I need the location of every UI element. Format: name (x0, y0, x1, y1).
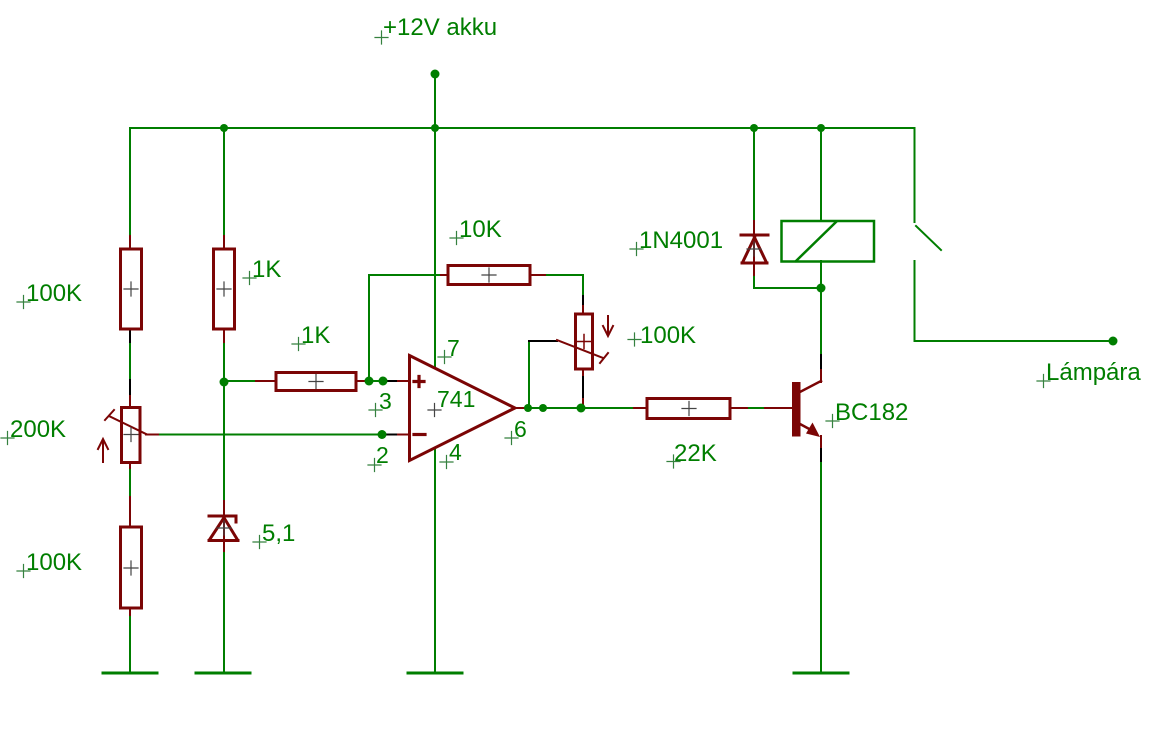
svg-text:Lámpára: Lámpára (1046, 359, 1141, 386)
pin stub op-amp pin 2 (398, 434, 409, 436)
origin cross R5 (309, 375, 323, 389)
svg-text:100K: 100K (640, 322, 696, 349)
wire relay bottom to collector (820, 261, 822, 370)
wire 22K to base (730, 407, 792, 409)
origin cross D1 (747, 242, 761, 256)
pin stub R3 wiper (146, 434, 158, 436)
pin stub D1 top (753, 221, 755, 235)
diode D1 1N4001 (741, 235, 768, 263)
text cross 1N4001 D1 (630, 243, 643, 256)
pin stub R8 right (730, 407, 747, 409)
pin stub R3 bottom (129, 462, 131, 468)
resistor R5 1K horizontal (276, 373, 356, 391)
resistor R4 100K bottom-left (121, 527, 142, 608)
text cross pin 2 (368, 459, 381, 472)
junction pin2 (378, 430, 387, 439)
text cross +12V akku (375, 31, 388, 44)
pin stub Z1 bottom (223, 543, 225, 551)
wire trimmer wiper down to output node (528, 341, 530, 408)
text cross 100K R1 (17, 296, 30, 309)
relay K1 coil (782, 221, 875, 262)
text cross 5,1 Z1 (253, 536, 266, 549)
text cross pin 6 (505, 432, 518, 445)
origin cross R4 (124, 561, 138, 575)
pin stub R8 left (634, 407, 647, 409)
text cross 1K R5 (292, 338, 305, 351)
svg-text:22K: 22K (674, 440, 717, 467)
text cross 1K R2 (243, 272, 256, 285)
wire relay coil top (820, 128, 822, 221)
junction node B (R2/R5/Z1) (220, 378, 229, 387)
ground (emitter) (794, 672, 848, 675)
wire black stub collector (820, 355, 822, 370)
ground (left divider) (103, 672, 157, 675)
svg-text:10K: 10K (459, 216, 502, 243)
node Lampara terminal (1109, 337, 1118, 346)
wire pot wiper to pin 2 (y=435) (146, 434, 398, 436)
wire black stub pin 2 (386, 434, 398, 436)
wire pin 4 to ground (434, 449, 436, 673)
pin stub op-amp pin 6 (515, 407, 526, 409)
origin cross R1 (124, 282, 138, 296)
resistor R1 100K top-left (121, 249, 142, 329)
junction D1/relay bottom (817, 284, 826, 293)
trimmer R7 100K (557, 314, 608, 369)
svg-text:1N4001: 1N4001 (639, 227, 723, 254)
pin stub R2 bottom (223, 329, 225, 342)
junction pin3/feedback (365, 377, 374, 386)
junction rail/+12V (431, 124, 439, 132)
wire +12V supply stub (434, 74, 436, 128)
text cross pin 7 (438, 351, 451, 364)
origin cross Z1 (217, 521, 231, 535)
junction rail/D1 (750, 124, 758, 132)
wire trimmer wiper horizontal (529, 340, 557, 342)
svg-text:1K: 1K (301, 322, 330, 349)
text cross pin 4 (440, 456, 453, 469)
svg-text:1K: 1K (252, 256, 281, 283)
junction output/trimmer bottom (577, 404, 586, 413)
origin cross R3 (124, 428, 138, 442)
text cross 100K R7 (628, 333, 641, 346)
wire black stub below R1 (129, 329, 131, 342)
svg-text:100K: 100K (26, 280, 82, 307)
ground (zener branch) (196, 672, 250, 675)
pin stub D1 bottom (753, 263, 755, 275)
wire rail to 1N4001 (753, 128, 755, 221)
pin stub trimmer top (582, 306, 584, 314)
resistor R2 1K vertical (214, 249, 235, 329)
pin stub Q1 collector (820, 370, 822, 382)
junction rail/relay (817, 124, 825, 132)
zener diode Z1 5,1 (209, 514, 238, 543)
wire 10K right to trimmer top (545, 275, 583, 306)
transistor Q1 BC182 (792, 381, 821, 437)
pin stub R1 top (129, 236, 131, 249)
wire emitter to ground (820, 437, 822, 673)
wire black stub above R3 (129, 380, 131, 396)
wire feedback horizontal to 10K (369, 274, 448, 276)
pin stub op-amp pin 3 (398, 380, 409, 382)
ground (op-amp pin 4) (408, 672, 462, 675)
pin stub R6 left (441, 274, 448, 276)
pin stub Z1 top (223, 501, 225, 514)
text cross 10K R6 (450, 232, 463, 245)
pin stub trimmer bottom upper (582, 369, 584, 375)
junction rail/R2 (220, 124, 228, 132)
text cross 200K R3 (1, 432, 14, 445)
op-amp U1 741 body (410, 356, 516, 461)
arrow up (200K adjust) (98, 439, 108, 462)
pin stub R3 top (129, 396, 131, 408)
wire output node to 22K (524, 407, 647, 409)
origin cross R6 (482, 268, 496, 282)
wire trimmer bottom to output node (582, 375, 584, 408)
wire 1N4001 anode to relay node (754, 275, 821, 288)
junction pin6/wiper (524, 404, 532, 412)
svg-text:BC182: BC182 (835, 399, 908, 426)
wire zener branch x=224 (223, 128, 225, 673)
junction pin6 (539, 404, 547, 412)
svg-text:100K: 100K (26, 549, 82, 576)
wire black stub below trimmer (582, 375, 584, 399)
svg-text:+12V akku: +12V akku (383, 14, 497, 41)
potentiometer R3 200K (105, 408, 146, 463)
svg-text:5,1: 5,1 (262, 520, 295, 547)
op-amp + input marker (414, 377, 424, 387)
arrow down (trimmer adjust) (603, 316, 613, 336)
svg-text:2: 2 (376, 442, 389, 468)
pin stub trimmer bottom lower (582, 399, 584, 405)
pin stub R5 left (256, 380, 276, 382)
pin stub R4 top (129, 497, 131, 527)
wire switch lower terminal to Lampara (915, 261, 1114, 341)
wire rail to switch (914, 128, 916, 222)
wire left divider branch x=130 (129, 128, 131, 673)
pin stub R5 right (356, 380, 369, 382)
svg-text:4: 4 (449, 439, 462, 465)
op-amp - input marker (414, 433, 425, 436)
svg-text:741: 741 (437, 386, 475, 412)
pin stub R6 right (530, 274, 545, 276)
text cross pin 3 (369, 404, 382, 417)
pin stub R4 bottom (129, 608, 131, 615)
pin stub R2 top (223, 236, 225, 249)
wire black stub above trimmer (582, 296, 584, 306)
node +12V terminal (431, 70, 440, 79)
resistor R6 10K (448, 266, 530, 285)
pin stub Q1 base (765, 407, 792, 409)
text cross Lampara (1037, 375, 1050, 388)
text cross BC182 Q1 (826, 415, 839, 428)
origin cross R8 (682, 402, 696, 416)
wire node to R5 input (y=381) (224, 380, 398, 382)
wire +12V top rail (130, 127, 914, 129)
text cross 100K R4 (17, 565, 30, 578)
junction pin3 (379, 377, 388, 386)
wire feedback vertical (368, 275, 370, 381)
text cross 22K R8 (667, 455, 680, 468)
resistor R8 22K (647, 399, 730, 419)
wire black stub emitter (820, 447, 822, 461)
svg-text:200K: 200K (10, 416, 66, 443)
wire pin 7 supply (434, 128, 436, 368)
pin stub Q1 emitter (820, 436, 822, 447)
origin cross R2 (217, 282, 231, 296)
origin cross U1 (428, 404, 441, 417)
wire black stub pin 3 (387, 380, 398, 382)
switch S1 blade (916, 226, 941, 250)
